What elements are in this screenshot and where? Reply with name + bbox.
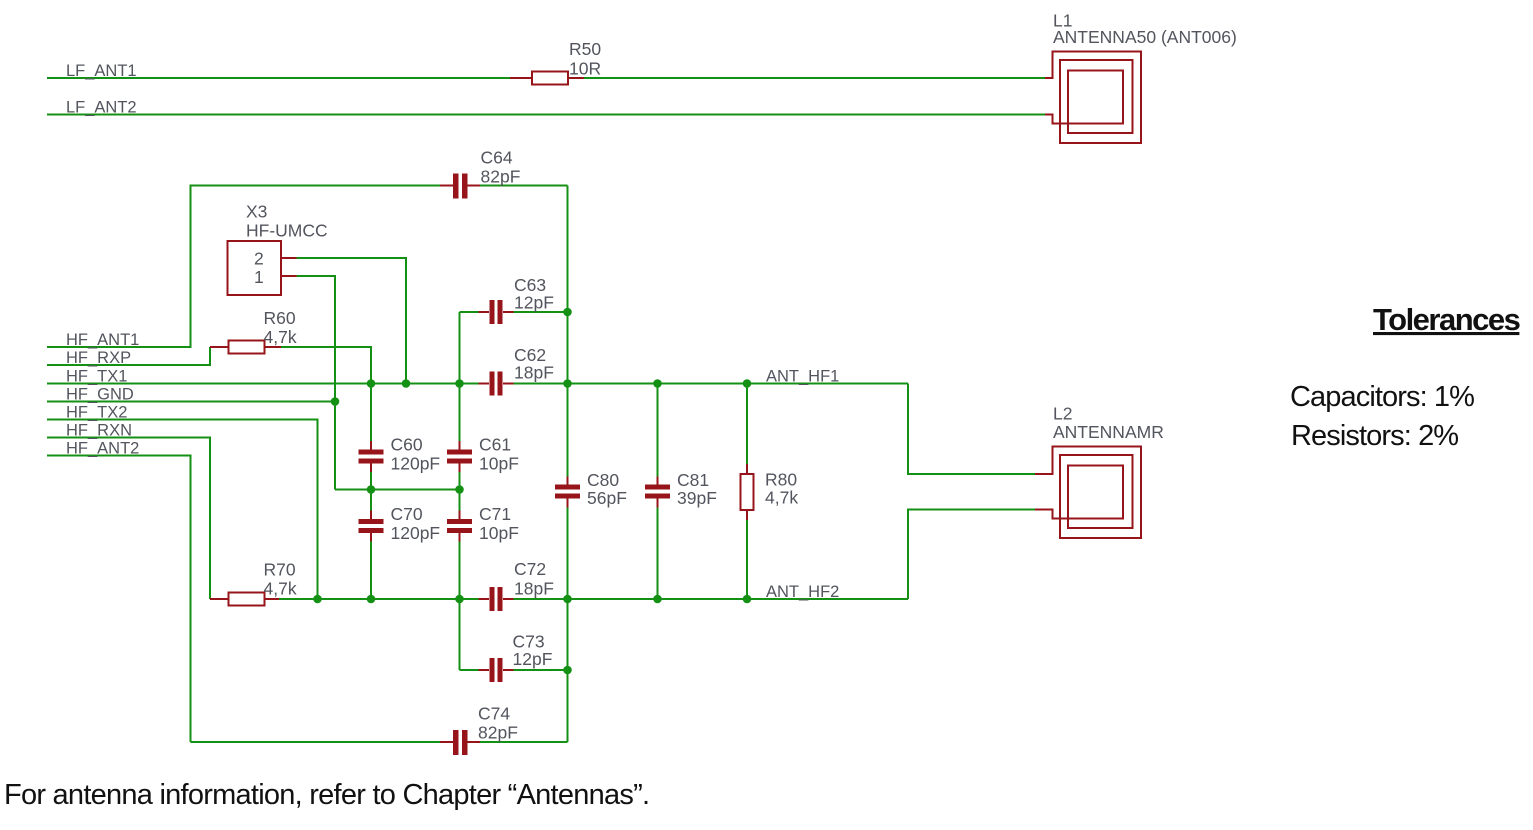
wire C80/C64 column <box>567 186 569 743</box>
junction node row HF_TX1 at C80 column <box>563 379 572 388</box>
svg-text:12pF: 12pF <box>514 293 554 313</box>
junction node bottom row at HF_TX2 column <box>313 595 322 604</box>
resistor R70 <box>210 560 297 606</box>
svg-text:C61: C61 <box>479 435 511 455</box>
wire C81 column <box>657 384 659 600</box>
svg-text:2: 2 <box>254 249 264 269</box>
resistor R80 <box>741 464 799 520</box>
pin 2 stub <box>281 257 297 259</box>
junction node row HF_TX1 at C81 column <box>653 379 662 388</box>
wire LF_ANT1 <box>47 77 1045 79</box>
junction node mid row at C60 column <box>367 485 376 494</box>
wire X3 pin2 to main row <box>297 258 407 384</box>
capacitor C62 <box>479 345 554 396</box>
capacitor C64 <box>440 148 520 199</box>
svg-text:10pF: 10pF <box>479 523 519 543</box>
svg-text:LF_ANT1: LF_ANT1 <box>66 62 137 80</box>
wire C61/C63/C71/C73 column <box>459 312 461 670</box>
svg-text:LF_ANT2: LF_ANT2 <box>66 99 137 117</box>
svg-text:X3: X3 <box>246 202 267 222</box>
wire C73 row <box>460 669 568 671</box>
svg-text:18pF: 18pF <box>514 363 554 383</box>
svg-text:HF_TX1: HF_TX1 <box>66 368 127 386</box>
resistor R50 <box>510 39 601 85</box>
svg-text:ANTENNA50 (ANT006): ANTENNA50 (ANT006) <box>1053 27 1237 47</box>
svg-text:4,7k: 4,7k <box>765 488 798 508</box>
svg-text:HF_ANT2: HF_ANT2 <box>66 440 139 458</box>
svg-text:R70: R70 <box>264 560 296 580</box>
svg-text:HF_RXN: HF_RXN <box>66 422 132 440</box>
wire HF_RXP <box>47 347 210 365</box>
svg-text:L2: L2 <box>1053 404 1072 424</box>
junction node bottom row at C71 column <box>455 595 464 604</box>
svg-text:Tolerances: Tolerances <box>1373 302 1520 337</box>
wire HF_GND <box>47 401 335 403</box>
wire HF_ANT1 <box>47 186 568 348</box>
wire C63 row <box>460 311 568 313</box>
wire ANT_HF2 to antenna L2 pin2 <box>908 510 1035 600</box>
capacitor C63 <box>479 275 554 324</box>
svg-text:C71: C71 <box>479 504 511 524</box>
wire X3 pin1 to HF_GND column <box>297 276 336 490</box>
svg-text:39pF: 39pF <box>677 488 717 508</box>
capacitor C72 <box>479 559 554 611</box>
wire R60 output to C60 column <box>281 347 371 384</box>
wire LF_ANT2 <box>47 114 1045 116</box>
svg-text:HF_GND: HF_GND <box>66 386 134 404</box>
wire mid row (C60/C61 junction row) <box>335 489 460 491</box>
pin 1 stub <box>281 275 297 277</box>
capacitor C70 <box>359 504 441 543</box>
wire C60 column <box>370 384 372 600</box>
capacitor C61 <box>447 435 519 474</box>
capacitor C60 <box>359 435 441 474</box>
capacitor C80 <box>555 470 627 508</box>
svg-text:C60: C60 <box>391 435 423 455</box>
junction node HF_GND column <box>331 397 340 406</box>
svg-text:120pF: 120pF <box>391 454 441 474</box>
junction node bottom row at C81 column <box>653 595 662 604</box>
junction node row HF_TX1 at R80 column <box>743 379 752 388</box>
junction node C73 row right <box>563 666 572 675</box>
capacitor C71 <box>447 504 519 543</box>
junction node row HF_TX1 at X3 pin2 column <box>402 379 411 388</box>
svg-text:10pF: 10pF <box>479 454 519 474</box>
svg-text:Capacitors: 1%: Capacitors: 1% <box>1290 381 1474 413</box>
wire ANT_HF1 to antenna L2 pin1 <box>908 384 1035 475</box>
junction node row HF_TX1 at C61 column <box>455 379 464 388</box>
svg-text:82pF: 82pF <box>481 167 521 187</box>
svg-text:18pF: 18pF <box>514 579 554 599</box>
svg-text:HF_RXP: HF_RXP <box>66 349 131 367</box>
junction node bottom row at C80 column <box>563 595 572 604</box>
svg-text:ANT_HF1: ANT_HF1 <box>766 368 839 386</box>
svg-text:1: 1 <box>254 267 264 287</box>
svg-text:For antenna information, refer: For antenna information, refer to Chapte… <box>4 779 649 811</box>
junction node mid row at C61 column <box>455 485 464 494</box>
svg-text:12pF: 12pF <box>513 649 553 669</box>
svg-text:C81: C81 <box>677 470 709 490</box>
svg-text:56pF: 56pF <box>587 488 627 508</box>
wire R80 column <box>746 384 748 600</box>
wire C74 row (bottom loop) <box>191 741 568 743</box>
junction node C63 row right <box>563 308 572 317</box>
wire bottom row ANT_HF2 <box>279 598 908 600</box>
capacitor C81 <box>645 470 717 508</box>
svg-text:R50: R50 <box>569 39 601 59</box>
svg-text:10R: 10R <box>569 59 601 79</box>
svg-text:ANT_HF2: ANT_HF2 <box>766 583 839 601</box>
svg-text:HF_TX2: HF_TX2 <box>66 404 127 422</box>
svg-text:R80: R80 <box>765 470 797 490</box>
wire HF_TX2 <box>47 420 318 600</box>
wire HF_TX1 main row <box>47 383 908 385</box>
junction node bottom row at C70 column <box>367 595 376 604</box>
svg-text:4,7k: 4,7k <box>264 327 297 347</box>
svg-text:C64: C64 <box>481 148 513 168</box>
antenna L1 <box>1045 11 1237 144</box>
svg-text:R60: R60 <box>264 308 296 328</box>
antenna L2 <box>1035 404 1164 539</box>
svg-text:ANTENNAMR: ANTENNAMR <box>1053 422 1164 442</box>
junction node bottom row at R80 column <box>743 595 752 604</box>
capacitor C74 <box>440 704 518 756</box>
junction node row HF_TX1 at C60 column <box>367 379 376 388</box>
svg-text:Resistors: 2%: Resistors: 2% <box>1291 420 1458 452</box>
svg-text:HF_ANT1: HF_ANT1 <box>66 331 139 349</box>
svg-text:HF-UMCC: HF-UMCC <box>246 221 328 241</box>
svg-text:C80: C80 <box>587 470 619 490</box>
svg-text:C70: C70 <box>391 504 423 524</box>
wire HF_ANT2 <box>47 456 191 743</box>
wire HF_RXN <box>47 438 210 600</box>
svg-text:4,7k: 4,7k <box>264 579 297 599</box>
svg-text:C72: C72 <box>514 559 546 579</box>
resistor R60 <box>210 308 297 354</box>
svg-text:120pF: 120pF <box>391 523 441 543</box>
connector X3 <box>228 202 328 296</box>
capacitor C73 <box>479 632 553 683</box>
svg-text:C74: C74 <box>478 704 510 724</box>
svg-text:82pF: 82pF <box>478 723 518 743</box>
